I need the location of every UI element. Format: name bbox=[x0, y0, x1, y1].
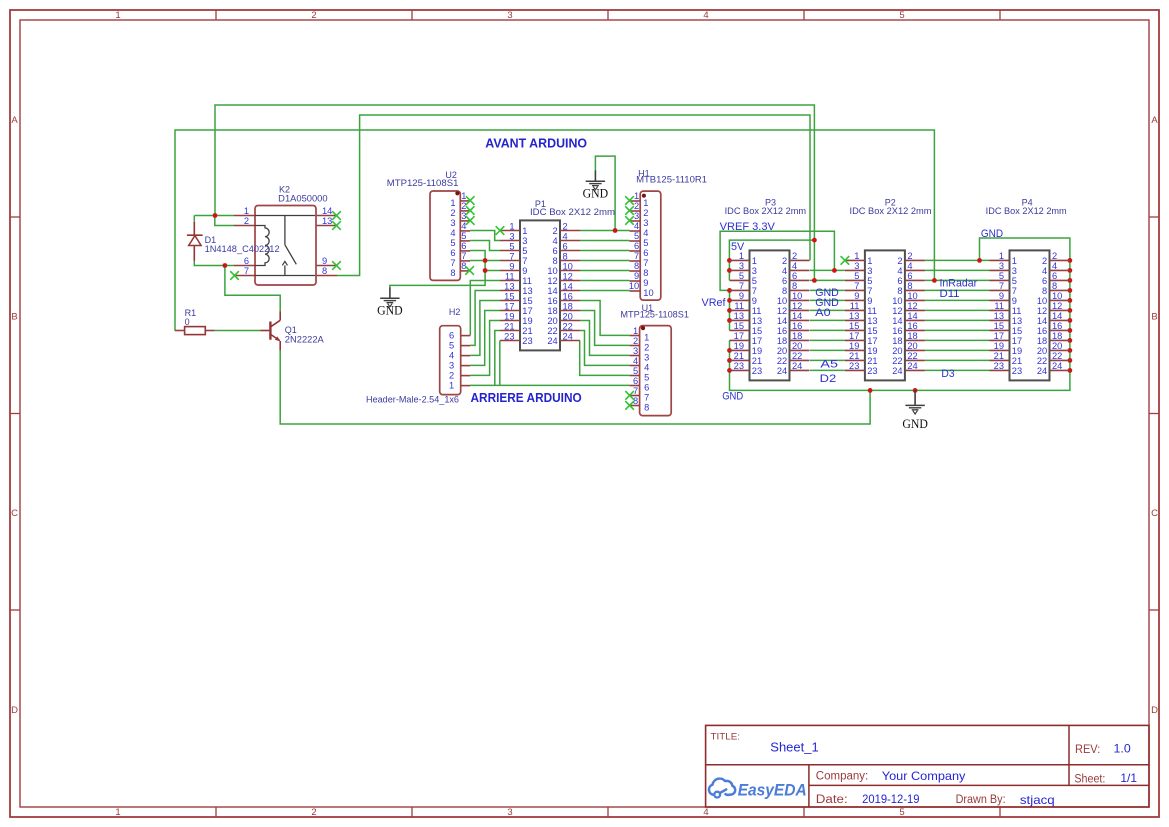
wire bbox=[470, 281, 500, 336]
svg-text:1: 1 bbox=[509, 221, 514, 231]
svg-text:18: 18 bbox=[563, 301, 573, 311]
junction bbox=[727, 358, 732, 363]
svg-text:GND: GND bbox=[377, 304, 403, 318]
svg-text:22: 22 bbox=[892, 356, 902, 366]
svg-text:7: 7 bbox=[867, 286, 872, 296]
svg-text:6: 6 bbox=[643, 248, 648, 258]
ground (bottom rail) bbox=[902, 390, 928, 431]
svg-text:24: 24 bbox=[777, 366, 787, 376]
svg-text:6: 6 bbox=[553, 246, 558, 256]
wire bbox=[810, 289, 845, 291]
svg-text:5: 5 bbox=[867, 276, 872, 286]
wire bbox=[580, 240, 630, 242]
svg-text:7: 7 bbox=[739, 281, 744, 291]
wire bbox=[470, 251, 485, 261]
svg-text:13: 13 bbox=[522, 286, 532, 296]
svg-text:MTP125-1108S1: MTP125-1108S1 bbox=[620, 310, 689, 320]
no-connect X P1 pin 1 bbox=[496, 226, 505, 235]
svg-text:1: 1 bbox=[449, 381, 454, 391]
svg-text:11: 11 bbox=[522, 276, 532, 286]
svg-text:IDC Box 2X12 2mm: IDC Box 2X12 2mm bbox=[986, 206, 1067, 216]
svg-text:2: 2 bbox=[311, 10, 316, 21]
svg-text:19: 19 bbox=[1012, 346, 1022, 356]
svg-text:15: 15 bbox=[734, 321, 744, 331]
svg-text:9: 9 bbox=[522, 266, 527, 276]
svg-text:GND: GND bbox=[902, 417, 928, 431]
junction bbox=[727, 268, 732, 273]
svg-text:10: 10 bbox=[777, 296, 787, 306]
wire bbox=[595, 156, 615, 230]
svg-text:3: 3 bbox=[999, 261, 1004, 271]
svg-text:D1A050000: D1A050000 bbox=[278, 193, 327, 203]
junction bbox=[727, 318, 732, 323]
svg-text:6: 6 bbox=[461, 241, 466, 251]
svg-text:4: 4 bbox=[703, 807, 708, 818]
svg-text:stjacq: stjacq bbox=[1020, 793, 1055, 807]
svg-text:11: 11 bbox=[1012, 306, 1022, 316]
wire bbox=[215, 216, 234, 226]
svg-text:2N2222A: 2N2222A bbox=[285, 335, 324, 345]
svg-text:14: 14 bbox=[563, 281, 573, 291]
svg-text:8: 8 bbox=[450, 268, 455, 278]
svg-text:23: 23 bbox=[522, 336, 532, 346]
svg-text:TITLE:: TITLE: bbox=[711, 732, 741, 743]
svg-text:1: 1 bbox=[633, 326, 638, 336]
wire bbox=[810, 269, 845, 271]
svg-text:21: 21 bbox=[504, 321, 514, 331]
svg-text:4: 4 bbox=[643, 228, 648, 238]
svg-text:15: 15 bbox=[752, 326, 762, 336]
svg-text:17: 17 bbox=[522, 306, 532, 316]
junction bbox=[727, 308, 732, 313]
svg-text:B: B bbox=[1151, 311, 1157, 322]
svg-text:9: 9 bbox=[867, 296, 872, 306]
svg-text:16: 16 bbox=[1052, 321, 1062, 331]
svg-text:22: 22 bbox=[777, 356, 787, 366]
svg-text:D2: D2 bbox=[820, 373, 837, 385]
junction bbox=[1068, 308, 1073, 313]
svg-text:1: 1 bbox=[115, 10, 120, 21]
P3 pin numbers bbox=[734, 251, 803, 376]
svg-text:H2: H2 bbox=[449, 307, 461, 317]
svg-text:7: 7 bbox=[461, 251, 466, 261]
svg-text:22: 22 bbox=[563, 321, 573, 331]
wire bbox=[470, 301, 500, 356]
svg-text:1: 1 bbox=[244, 206, 249, 216]
svg-text:19: 19 bbox=[752, 346, 762, 356]
junction bbox=[1068, 288, 1073, 293]
wire bbox=[470, 311, 500, 366]
svg-text:5: 5 bbox=[461, 231, 466, 241]
EasyEDA logo bbox=[709, 779, 807, 800]
svg-text:1: 1 bbox=[115, 807, 120, 818]
svg-text:19: 19 bbox=[994, 341, 1004, 351]
svg-text:9: 9 bbox=[999, 291, 1004, 301]
svg-text:6: 6 bbox=[644, 383, 649, 393]
junction bbox=[1068, 348, 1073, 353]
wire bbox=[580, 270, 630, 272]
wire bbox=[925, 319, 990, 321]
svg-text:6: 6 bbox=[449, 331, 454, 341]
svg-text:7: 7 bbox=[522, 256, 527, 266]
svg-text:12: 12 bbox=[777, 306, 787, 316]
wire bbox=[194, 261, 234, 266]
svg-text:3: 3 bbox=[461, 211, 466, 221]
svg-text:14: 14 bbox=[547, 286, 557, 296]
svg-text:3: 3 bbox=[867, 266, 872, 276]
svg-text:C: C bbox=[11, 508, 18, 519]
svg-text:IDC Box 2X12 2mm: IDC Box 2X12 2mm bbox=[725, 206, 807, 216]
resistor R1 bbox=[175, 327, 215, 335]
svg-text:14: 14 bbox=[1037, 316, 1047, 326]
junction bbox=[868, 388, 873, 393]
svg-text:5: 5 bbox=[899, 807, 904, 818]
junction bbox=[727, 258, 732, 263]
svg-text:9: 9 bbox=[509, 261, 514, 271]
svg-text:8: 8 bbox=[644, 403, 649, 413]
junction bbox=[1068, 338, 1073, 343]
svg-text:17: 17 bbox=[1012, 336, 1022, 346]
wire bbox=[580, 230, 630, 232]
svg-text:7: 7 bbox=[634, 251, 639, 261]
svg-text:24: 24 bbox=[547, 336, 557, 346]
svg-text:D3: D3 bbox=[941, 368, 954, 380]
svg-text:3: 3 bbox=[752, 266, 757, 276]
svg-text:18: 18 bbox=[547, 306, 557, 316]
svg-text:4: 4 bbox=[782, 266, 787, 276]
svg-text:ARRIERE ARDUINO: ARRIERE ARDUINO bbox=[471, 391, 582, 405]
svg-text:10: 10 bbox=[547, 266, 557, 276]
svg-text:11: 11 bbox=[867, 306, 877, 316]
wire bbox=[925, 279, 990, 281]
svg-text:IDC Box 2X12 2mm: IDC Box 2X12 2mm bbox=[850, 206, 932, 216]
svg-text:12: 12 bbox=[792, 301, 802, 311]
svg-text:8: 8 bbox=[322, 266, 327, 276]
svg-text:2: 2 bbox=[553, 226, 558, 236]
wire bbox=[730, 238, 1070, 390]
junction bbox=[1068, 328, 1073, 333]
svg-text:10: 10 bbox=[792, 291, 802, 301]
svg-text:10: 10 bbox=[1037, 296, 1047, 306]
svg-text:6: 6 bbox=[782, 276, 787, 286]
svg-text:20: 20 bbox=[892, 346, 902, 356]
H1 pin numbers bbox=[629, 191, 654, 298]
junction bbox=[1068, 268, 1073, 273]
svg-text:3: 3 bbox=[507, 10, 512, 21]
svg-text:5: 5 bbox=[643, 238, 648, 248]
svg-text:7: 7 bbox=[752, 286, 757, 296]
svg-text:3: 3 bbox=[1012, 266, 1017, 276]
wire bbox=[175, 130, 934, 331]
svg-text:8: 8 bbox=[782, 286, 787, 296]
svg-text:4: 4 bbox=[1042, 266, 1047, 276]
svg-text:19: 19 bbox=[734, 341, 744, 351]
junction bbox=[613, 228, 618, 233]
svg-text:8: 8 bbox=[553, 256, 558, 266]
connector U1 MTP125-1108S1 bbox=[630, 326, 672, 416]
svg-text:Sheet_1: Sheet_1 bbox=[770, 739, 818, 754]
svg-text:4: 4 bbox=[461, 221, 466, 231]
svg-text:23: 23 bbox=[994, 361, 1004, 371]
svg-text:2: 2 bbox=[792, 251, 797, 261]
svg-text:15: 15 bbox=[504, 291, 514, 301]
svg-text:Drawn By:: Drawn By: bbox=[956, 794, 1006, 806]
wire bbox=[925, 349, 990, 351]
svg-text:1: 1 bbox=[461, 191, 466, 201]
wire bbox=[580, 260, 630, 262]
wire bbox=[925, 299, 990, 301]
svg-text:11: 11 bbox=[734, 301, 744, 311]
svg-text:6: 6 bbox=[907, 271, 912, 281]
svg-text:9: 9 bbox=[739, 291, 744, 301]
svg-text:12: 12 bbox=[892, 306, 902, 316]
svg-text:3: 3 bbox=[509, 231, 514, 241]
svg-text:23: 23 bbox=[752, 366, 762, 376]
connector U2 MTP125-1108S1 bbox=[430, 191, 470, 280]
svg-text:D: D bbox=[11, 705, 18, 716]
svg-text:20: 20 bbox=[907, 341, 917, 351]
svg-text:5: 5 bbox=[633, 366, 638, 376]
svg-text:4: 4 bbox=[449, 351, 454, 361]
connector P3 IDC Box 2X12 2mm bbox=[730, 250, 810, 380]
transistor Q1 2N2222A bbox=[260, 311, 280, 350]
wire bbox=[810, 329, 845, 331]
svg-text:2: 2 bbox=[450, 208, 455, 218]
wire bbox=[925, 359, 990, 361]
junction bbox=[932, 278, 937, 283]
wire bbox=[280, 350, 870, 424]
svg-text:3: 3 bbox=[739, 261, 744, 271]
svg-text:9: 9 bbox=[634, 271, 639, 281]
svg-text:5: 5 bbox=[449, 341, 454, 351]
svg-text:24: 24 bbox=[563, 331, 573, 341]
svg-text:10: 10 bbox=[1052, 291, 1062, 301]
svg-text:10: 10 bbox=[563, 261, 573, 271]
wire bbox=[810, 339, 845, 341]
wire bbox=[925, 269, 990, 271]
wire bbox=[925, 289, 990, 291]
svg-text:2: 2 bbox=[311, 807, 316, 818]
svg-text:8: 8 bbox=[634, 261, 639, 271]
svg-text:1: 1 bbox=[522, 226, 527, 236]
svg-text:8: 8 bbox=[792, 281, 797, 291]
svg-text:4: 4 bbox=[633, 356, 638, 366]
svg-text:22: 22 bbox=[792, 351, 802, 361]
svg-text:9: 9 bbox=[752, 296, 757, 306]
svg-text:2: 2 bbox=[782, 256, 787, 266]
junction bbox=[1068, 358, 1073, 363]
junction bbox=[727, 288, 732, 293]
svg-text:18: 18 bbox=[1052, 331, 1062, 341]
svg-text:1: 1 bbox=[634, 191, 639, 201]
svg-text:10: 10 bbox=[892, 296, 902, 306]
svg-text:6: 6 bbox=[244, 256, 249, 266]
svg-text:22: 22 bbox=[907, 351, 917, 361]
svg-text:5: 5 bbox=[999, 271, 1004, 281]
svg-text:D: D bbox=[1151, 705, 1158, 716]
svg-text:12: 12 bbox=[563, 271, 573, 281]
svg-text:21: 21 bbox=[867, 356, 877, 366]
svg-text:6: 6 bbox=[634, 241, 639, 251]
svg-text:16: 16 bbox=[1037, 326, 1047, 336]
svg-text:2: 2 bbox=[461, 201, 466, 211]
no-connect X U1 pins 7,8 bbox=[625, 391, 634, 400]
svg-text:13: 13 bbox=[752, 316, 762, 326]
svg-text:20: 20 bbox=[792, 341, 802, 351]
svg-text:2: 2 bbox=[897, 256, 902, 266]
junction bbox=[812, 238, 817, 243]
wire bbox=[810, 369, 845, 371]
svg-text:4: 4 bbox=[644, 363, 649, 373]
svg-text:5V: 5V bbox=[731, 241, 745, 253]
svg-text:15: 15 bbox=[522, 296, 532, 306]
svg-text:23: 23 bbox=[734, 361, 744, 371]
svg-text:12: 12 bbox=[907, 301, 917, 311]
connector H2 Header-Male-2.54_1x6 bbox=[440, 326, 471, 395]
wire bbox=[810, 299, 845, 301]
svg-text:14: 14 bbox=[1052, 311, 1062, 321]
svg-text:15: 15 bbox=[849, 321, 859, 331]
svg-text:EasyEDA: EasyEDA bbox=[738, 781, 807, 800]
svg-text:16: 16 bbox=[777, 326, 787, 336]
svg-text:1: 1 bbox=[752, 256, 757, 266]
svg-text:MTB125-1110R1: MTB125-1110R1 bbox=[636, 175, 707, 185]
junction bbox=[727, 348, 732, 353]
svg-text:8: 8 bbox=[563, 251, 568, 261]
svg-text:13: 13 bbox=[1012, 316, 1022, 326]
svg-text:6: 6 bbox=[563, 241, 568, 251]
svg-text:4: 4 bbox=[907, 261, 912, 271]
svg-text:5: 5 bbox=[634, 231, 639, 241]
wire bbox=[810, 349, 845, 351]
svg-text:16: 16 bbox=[563, 291, 573, 301]
svg-text:23: 23 bbox=[1012, 366, 1022, 376]
svg-text:1: 1 bbox=[643, 198, 648, 208]
H2 pin numbers bbox=[449, 331, 454, 391]
svg-text:2: 2 bbox=[633, 336, 638, 346]
junction bbox=[977, 258, 982, 263]
wire bbox=[495, 331, 500, 386]
connector P2 IDC Box 2X12 2mm bbox=[845, 250, 925, 380]
wire bbox=[720, 231, 834, 330]
connector H1 MTB125-1110R1 bbox=[630, 191, 661, 300]
wire bbox=[925, 259, 990, 261]
svg-text:VRef: VRef bbox=[702, 297, 727, 309]
wire bbox=[925, 329, 990, 331]
svg-text:2: 2 bbox=[634, 201, 639, 211]
svg-text:7: 7 bbox=[1012, 286, 1017, 296]
svg-text:3: 3 bbox=[644, 353, 649, 363]
svg-text:2: 2 bbox=[1042, 256, 1047, 266]
svg-text:3: 3 bbox=[507, 807, 512, 818]
svg-text:2019-12-19: 2019-12-19 bbox=[862, 792, 920, 806]
svg-text:13: 13 bbox=[849, 311, 859, 321]
svg-text:18: 18 bbox=[777, 336, 787, 346]
wire bbox=[580, 321, 630, 356]
svg-text:6: 6 bbox=[897, 276, 902, 286]
svg-text:A: A bbox=[1151, 115, 1158, 126]
svg-text:IDC Box 2X12 2mm: IDC Box 2X12 2mm bbox=[530, 207, 615, 217]
svg-text:14: 14 bbox=[792, 311, 802, 321]
junction bbox=[913, 388, 918, 393]
no-connect X H1 pins 1,2,3 bbox=[625, 196, 634, 205]
svg-text:MTP125-1108S1: MTP125-1108S1 bbox=[387, 178, 459, 188]
svg-text:10: 10 bbox=[643, 288, 653, 298]
wire bbox=[485, 270, 500, 272]
svg-text:3: 3 bbox=[643, 218, 648, 228]
svg-text:GND: GND bbox=[722, 391, 743, 403]
ground (below U2) bbox=[377, 287, 403, 318]
svg-text:Header-Male-2.54_1x6: Header-Male-2.54_1x6 bbox=[366, 394, 459, 404]
wire bbox=[580, 250, 630, 252]
svg-text:Date:: Date: bbox=[816, 794, 848, 806]
svg-text:20: 20 bbox=[1037, 346, 1047, 356]
junction bbox=[223, 263, 228, 268]
svg-text:Your Company: Your Company bbox=[882, 769, 966, 783]
svg-text:6: 6 bbox=[633, 376, 638, 386]
wire bbox=[729, 240, 814, 280]
svg-text:1: 1 bbox=[450, 198, 455, 208]
wire bbox=[925, 339, 990, 341]
svg-text:13: 13 bbox=[734, 311, 744, 321]
svg-text:5: 5 bbox=[739, 271, 744, 281]
svg-text:8: 8 bbox=[1052, 281, 1057, 291]
junction bbox=[1068, 318, 1073, 323]
wire bbox=[225, 266, 280, 312]
P2 pin numbers bbox=[849, 251, 918, 376]
svg-text:14: 14 bbox=[907, 311, 917, 321]
wire bbox=[810, 319, 845, 321]
svg-text:14: 14 bbox=[892, 316, 902, 326]
svg-text:1.0: 1.0 bbox=[1114, 742, 1132, 756]
svg-text:4: 4 bbox=[897, 266, 902, 276]
junction bbox=[1068, 368, 1073, 373]
svg-text:21: 21 bbox=[994, 351, 1004, 361]
svg-text:11: 11 bbox=[850, 301, 860, 311]
svg-text:16: 16 bbox=[547, 296, 557, 306]
svg-text:GND: GND bbox=[981, 228, 1003, 240]
svg-text:3: 3 bbox=[854, 261, 859, 271]
P4 pin numbers bbox=[994, 251, 1063, 376]
svg-text:0: 0 bbox=[185, 317, 190, 327]
svg-text:22: 22 bbox=[547, 326, 557, 336]
svg-text:1: 1 bbox=[867, 256, 872, 266]
svg-text:12: 12 bbox=[547, 276, 557, 286]
wire bbox=[390, 261, 485, 288]
svg-text:A0: A0 bbox=[815, 307, 830, 319]
svg-text:1: 1 bbox=[854, 251, 859, 261]
svg-text:11: 11 bbox=[752, 306, 762, 316]
svg-text:17: 17 bbox=[994, 331, 1004, 341]
U2 pin numbers bbox=[450, 191, 466, 278]
svg-text:4: 4 bbox=[450, 228, 455, 238]
svg-text:13: 13 bbox=[994, 311, 1004, 321]
junction bbox=[812, 278, 817, 283]
wire bbox=[470, 241, 500, 251]
svg-text:REV:: REV: bbox=[1075, 744, 1100, 756]
wire bbox=[499, 341, 501, 386]
svg-text:17: 17 bbox=[849, 331, 859, 341]
svg-text:Company:: Company: bbox=[816, 771, 868, 783]
svg-text:9: 9 bbox=[322, 256, 327, 266]
svg-text:17: 17 bbox=[734, 331, 744, 341]
ground (top, near H1) bbox=[583, 170, 609, 201]
svg-text:20: 20 bbox=[547, 316, 557, 326]
svg-text:12: 12 bbox=[1052, 301, 1062, 311]
wire bbox=[215, 330, 261, 332]
svg-text:9: 9 bbox=[643, 278, 648, 288]
relay K2 D1A050000 bbox=[234, 206, 337, 286]
